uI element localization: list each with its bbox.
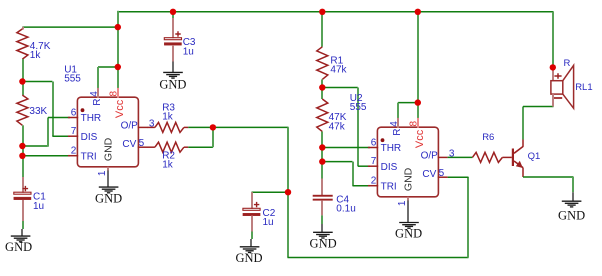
ground GND below C2 — [235, 239, 262, 265]
svg-text:GND: GND — [395, 227, 422, 241]
svg-text:GND: GND — [403, 167, 415, 191]
wire CV run riser to U2 pin 5 — [448, 177, 469, 257]
svg-text:TRI: TRI — [381, 181, 397, 192]
svg-text:1: 1 — [97, 170, 108, 176]
wire node E to node F — [321, 148, 323, 162]
svg-text:6: 6 — [71, 108, 77, 119]
svg-text:CV: CV — [422, 169, 436, 180]
svg-text:CV: CV — [122, 139, 136, 150]
wire Q1 collector to speaker — [523, 107, 554, 140]
svg-text:THR: THR — [81, 113, 102, 124]
svg-text:8: 8 — [109, 91, 120, 97]
svg-text:4: 4 — [89, 91, 100, 97]
resistor R 4.7K 1k — [17, 27, 51, 61]
svg-text:1u: 1u — [263, 217, 274, 228]
wire junction C2 tap — [285, 189, 291, 195]
resistor R 33K — [17, 95, 48, 125]
wire node C to U1 TRI — [22, 155, 70, 157]
svg-text:8: 8 — [409, 121, 420, 127]
IC U2 555 timer — [368, 118, 455, 206]
ground GND below C4 — [310, 224, 337, 250]
wire riser joining rails — [117, 11, 119, 28]
wire V+ top rail — [118, 11, 554, 13]
wire node D to 47K — [321, 88, 323, 100]
svg-text:GND: GND — [5, 240, 32, 254]
wire junction node E — [319, 144, 325, 150]
IC U2 555 label — [350, 93, 367, 113]
wire U1 reset link — [98, 67, 118, 88]
svg-text:7: 7 — [71, 126, 77, 137]
resistor R6 — [448, 132, 512, 162]
ground GND below C1 — [5, 229, 32, 254]
wire node F to U2 TRI — [322, 162, 370, 186]
capacitor C2 1u — [243, 192, 276, 231]
wire bottom CV run — [288, 257, 469, 259]
wire node F to C4 — [321, 162, 323, 179]
op-amp? no - IC U1 555 label — [64, 65, 81, 85]
transistor Q1 — [512, 140, 540, 178]
svg-text:2: 2 — [371, 176, 377, 187]
resistor R1 47k — [317, 47, 348, 80]
svg-text:R: R — [392, 128, 403, 135]
svg-text:GND: GND — [310, 236, 337, 250]
svg-text:1k: 1k — [162, 111, 174, 122]
svg-text:1: 1 — [397, 200, 408, 206]
ground GND right of Q1 — [558, 192, 585, 222]
svg-text:Vcc: Vcc — [114, 99, 126, 118]
svg-text:555: 555 — [64, 74, 81, 85]
wire node B to node C — [22, 146, 24, 156]
svg-text:33K: 33K — [29, 106, 47, 117]
svg-text:5: 5 — [139, 138, 145, 149]
svg-text:O/P: O/P — [421, 151, 439, 162]
wire junction rail-U2 Vcc — [415, 9, 421, 15]
wire junction speaker terminal — [550, 64, 556, 70]
wire node A to U1 DIS — [22, 82, 70, 137]
wire node A to 33K — [22, 82, 24, 96]
svg-text:GND: GND — [103, 137, 115, 161]
svg-text:6: 6 — [371, 138, 377, 149]
svg-text:DIS: DIS — [381, 162, 398, 173]
IC U1 555 timer — [68, 88, 155, 176]
capacitor C3 1u — [164, 18, 196, 62]
wire U2 reset link — [398, 103, 418, 118]
wire C1 to ground — [22, 221, 24, 229]
wire junction rail-R1 — [319, 9, 325, 15]
wire junction rail-C3 — [170, 9, 176, 15]
svg-text:R: R — [92, 98, 103, 105]
wire out node to CV drop — [213, 127, 289, 257]
svg-text:1u: 1u — [33, 201, 44, 212]
wire junction node D — [319, 84, 325, 90]
svg-text:O/P: O/P — [121, 121, 139, 132]
loudspeaker RL1 — [551, 58, 593, 108]
svg-text:4: 4 — [389, 121, 400, 127]
svg-text:GND: GND — [235, 251, 262, 265]
wire junction rail-riser — [115, 24, 121, 30]
wire rail junction to C3 — [172, 12, 174, 18]
wire 33K bottom — [22, 125, 24, 146]
wire C4 to ground — [321, 215, 323, 224]
wire node C to C1 — [22, 156, 24, 177]
svg-text:1u: 1u — [183, 46, 194, 57]
wire junction node A — [19, 78, 25, 84]
svg-text:GND: GND — [95, 192, 122, 206]
wire junction node B — [19, 143, 25, 149]
svg-text:0.1u: 0.1u — [336, 204, 355, 215]
svg-text:R: R — [564, 58, 571, 69]
wire C2 tap — [252, 191, 289, 193]
ground GND below U1 — [95, 170, 122, 205]
svg-text:47k: 47k — [330, 65, 347, 76]
wire rail to speaker — [552, 12, 554, 68]
svg-text:THR: THR — [381, 143, 402, 154]
wire junction node C — [19, 153, 25, 159]
wire node B to U1 THR — [22, 118, 70, 147]
svg-text:R6: R6 — [482, 132, 494, 143]
resistor R3 1k — [147, 102, 188, 132]
wire rail to U1 pin 8 Vcc — [117, 27, 119, 96]
wire R1 bottom to node D — [321, 79, 323, 87]
wire node D to U2 DIS — [322, 88, 370, 167]
capacitor C1 1u — [14, 177, 46, 221]
svg-text:RL1: RL1 — [575, 82, 592, 93]
capacitor C4 0.1u — [313, 179, 356, 216]
wire 4.7K bottom to node A — [22, 59, 24, 81]
svg-text:47k: 47k — [329, 121, 346, 132]
ground GND below C3 — [159, 62, 186, 92]
svg-text:2: 2 — [71, 146, 77, 157]
svg-text:Q1: Q1 — [528, 151, 541, 162]
svg-text:1k: 1k — [30, 50, 42, 61]
ground GND below U2 — [395, 200, 422, 240]
wire R2 to out node riser — [188, 127, 213, 148]
resistor R 47K 47k — [317, 99, 347, 132]
wire rail to U2 pin 8 Vcc — [417, 12, 419, 126]
wire junction U1 output node — [210, 124, 216, 130]
svg-text:DIS: DIS — [81, 132, 98, 143]
svg-text:Vcc: Vcc — [414, 129, 426, 148]
wire junction U1 reset tap — [115, 64, 121, 70]
wire 47K bottom to node E — [321, 132, 323, 148]
wire R3 to out node — [188, 126, 213, 128]
wire rail to R1 — [321, 12, 323, 47]
wire Q1 emitter to ground — [523, 177, 574, 192]
wire node E to U2 THR — [322, 147, 370, 149]
svg-text:7: 7 — [371, 156, 377, 167]
svg-text:GND: GND — [558, 209, 585, 223]
wire V+ rail segment lower-left — [22, 26, 117, 28]
svg-text:555: 555 — [350, 102, 367, 113]
wire junction node F — [319, 158, 325, 164]
svg-text:1k: 1k — [162, 160, 174, 171]
svg-text:GND: GND — [159, 77, 186, 91]
wire junction U2 reset tap — [415, 99, 421, 105]
wire C2 to ground — [251, 232, 253, 240]
resistor R2 1k — [147, 142, 188, 170]
svg-text:5: 5 — [439, 168, 445, 179]
svg-text:TRI: TRI — [81, 151, 97, 162]
